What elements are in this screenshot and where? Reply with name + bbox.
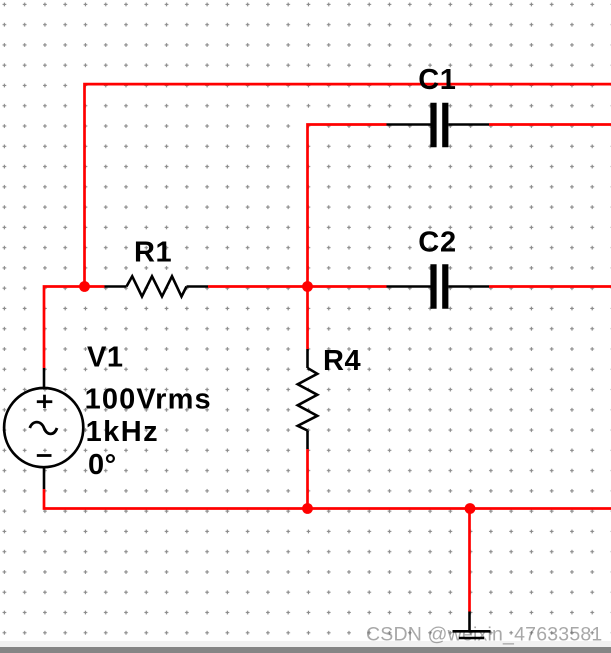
AC source V1 <box>4 368 83 489</box>
capacitor C2 <box>387 264 490 309</box>
svg-text:C1: C1 <box>418 64 456 96</box>
junction node B (middle) <box>302 281 313 292</box>
svg-text:R1: R1 <box>134 237 172 269</box>
junction node C (R4 bottom) <box>302 503 313 514</box>
svg-text:0°: 0° <box>88 449 117 481</box>
svg-text:R4: R4 <box>323 345 361 377</box>
wire R4 bottom red segment <box>306 449 309 509</box>
wire R4 top red segment <box>306 287 309 350</box>
wire ground drop at x=469.5 <box>468 509 471 612</box>
svg-text:V1: V1 <box>87 342 123 374</box>
wire row3 middle segment R1 to C2 <box>208 285 387 288</box>
scrollbar dark bar <box>0 647 611 653</box>
scrollbar light track <box>0 641 611 647</box>
capacitor C1 <box>387 103 490 148</box>
resistor R1 <box>105 276 209 296</box>
junction node A (left) <box>79 281 90 292</box>
wire top rail y=84 with corner down at x=84.5 <box>85 84 611 286</box>
svg-text:CSDN @weixin_47633581: CSDN @weixin_47633581 <box>366 624 602 646</box>
wire row3 left segment and corner down to V1 <box>44 287 105 369</box>
junction node D (ground tap) <box>465 503 476 514</box>
resistor R4 <box>298 349 318 449</box>
wire row2 y=124.5 from middle column to C1 left lead <box>308 125 387 287</box>
wire row3 right of C2 <box>489 285 611 288</box>
wire row2 right of C1 <box>489 123 611 126</box>
svg-text:1kHz: 1kHz <box>86 416 158 448</box>
svg-text:100Vrms: 100Vrms <box>85 383 211 415</box>
wire V1 bottom to bottom rail y=508.5 <box>44 489 611 509</box>
svg-text:C2: C2 <box>418 227 457 259</box>
ground symbol <box>453 612 491 639</box>
